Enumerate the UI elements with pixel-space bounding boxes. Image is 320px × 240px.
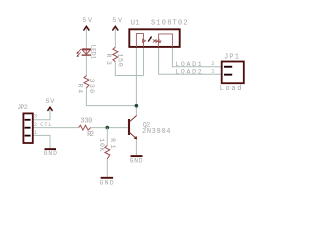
svg-text:LED1: LED1 — [90, 45, 97, 59]
svg-text:JP2: JP2 — [17, 104, 28, 111]
svg-text:R4: R4 — [77, 84, 84, 93]
ground GND3 (under R1) — [100, 178, 114, 187]
wire U1 pin C to JP1 pin 1 (LOAD2) — [159, 48, 222, 75]
wire JP2 pin1 to GND1 — [34, 135, 51, 148]
svg-text:2: 2 — [34, 121, 37, 128]
supply 5V2 symbol — [112, 17, 123, 31]
svg-text:R2: R2 — [87, 131, 94, 139]
supply 5V1 symbol — [82, 17, 93, 31]
svg-text:2: 2 — [211, 60, 214, 67]
svg-text:330: 330 — [88, 79, 95, 93]
svg-text:JP1: JP1 — [224, 53, 239, 61]
wire node B to R1 — [106, 128, 108, 146]
svg-text:GND: GND — [44, 150, 57, 157]
wire JP2 pin3 to 5V3 — [34, 109, 51, 120]
svg-text:3: 3 — [34, 112, 37, 119]
svg-text:U1: U1 — [131, 19, 140, 27]
svg-text:GND: GND — [130, 158, 143, 165]
connector JP1 — [220, 53, 244, 93]
wire CTL JP2 pin2 to R2 — [34, 127, 79, 129]
U1 output pin staple — [159, 34, 173, 47]
wire LED1 cathode to R4 — [85, 56, 87, 76]
svg-text:S108T02: S108T02 — [151, 19, 188, 27]
svg-text:GND: GND — [100, 179, 114, 186]
ground GND1 (under JP2) — [44, 149, 57, 157]
resistor R1 — [98, 138, 116, 159]
svg-text:330: 330 — [80, 118, 92, 126]
wire R2 to Q2 base — [91, 127, 128, 129]
svg-text:150: 150 — [116, 53, 123, 66]
U1 internal opto symbol — [143, 36, 162, 43]
supply 5V3 symbol — [46, 98, 56, 111]
resistor R4 — [77, 76, 95, 93]
svg-text:10K: 10K — [98, 138, 105, 151]
transistor Q2 2N3904 — [129, 116, 170, 140]
wire R1 bottom to GND3 — [106, 159, 108, 177]
diode LED1 — [76, 45, 96, 59]
wire R4 bottom to junction A — [86, 88, 136, 106]
resistor R3 — [105, 47, 123, 67]
svg-text:5V: 5V — [82, 17, 93, 25]
node A junction dot — [135, 104, 139, 108]
svg-text:2N3904: 2N3904 — [142, 128, 170, 136]
svg-text:Load: Load — [220, 85, 242, 93]
resistor R2 — [79, 118, 95, 140]
svg-text:5V: 5V — [112, 17, 123, 25]
wire U1 pin B vertical — [143, 48, 145, 76]
wire Q2 emitter to GND2 — [135, 139, 137, 156]
svg-text:5V: 5V — [46, 98, 56, 106]
wire R3 bottom to U1 pin B — [115, 62, 143, 76]
wire U1 pin D to JP1 pin 2 (LOAD1) — [172, 48, 221, 67]
op-coupler U1 S108T02 box — [129, 19, 187, 47]
connector JP2 — [17, 104, 38, 143]
U1 input pin staple — [136, 34, 143, 47]
wire 5V2 to R3 — [114, 27, 116, 47]
svg-text:CTL: CTL — [40, 121, 51, 128]
wire 5V1 to LED1 anode — [85, 27, 87, 48]
ground GND2 (under Q2) — [130, 156, 143, 165]
node B junction dot — [106, 126, 110, 130]
wire U1 pin A to Q2 collector — [135, 48, 137, 116]
